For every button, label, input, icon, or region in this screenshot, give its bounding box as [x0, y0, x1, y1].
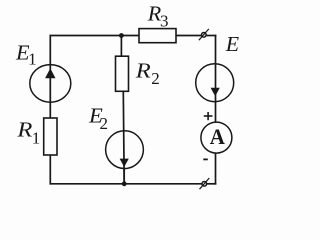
wire right branch upper	[215, 35, 217, 122]
source E arrow	[211, 88, 220, 96]
wire middle branch between R2 and E2	[122, 91, 125, 184]
svg-text:R: R	[16, 118, 32, 141]
wire left branch upper	[49, 35, 51, 118]
wire middle branch upper stub	[120, 36, 122, 57]
svg-text:R: R	[135, 59, 151, 82]
source E1 circle	[30, 65, 71, 103]
wire right branch lower	[215, 153, 217, 184]
wire left branch lower	[49, 155, 51, 185]
svg-text:3: 3	[160, 12, 169, 31]
svg-text:1: 1	[32, 128, 41, 147]
source E2 arrow	[120, 159, 129, 167]
ammeter minus sign	[203, 158, 208, 160]
node junction bottom (middle branch to bottom wire)	[122, 181, 127, 186]
ammeter A circle	[201, 122, 232, 153]
svg-text:E: E	[225, 33, 239, 57]
wire top terminal to right corner	[206, 35, 216, 37]
resistor R2 box	[116, 56, 129, 91]
svg-text:2: 2	[100, 114, 109, 133]
wire top horizontal between R3 and top terminal	[176, 35, 202, 37]
resistor R3 box	[139, 29, 176, 43]
svg-text:A: A	[210, 124, 225, 149]
svg-text:1: 1	[28, 50, 36, 69]
ammeter plus sign	[204, 112, 213, 120]
wire bottom horizontal left segment	[50, 183, 203, 185]
resistor R1 box	[44, 118, 57, 155]
wire bottom terminal to right corner	[206, 183, 216, 185]
svg-text:R: R	[147, 2, 161, 25]
source E circle	[196, 64, 234, 102]
svg-text:2: 2	[151, 69, 160, 88]
node junction top (middle branch to top wire)	[119, 33, 124, 38]
wire middle branch lower stub	[123, 168, 125, 184]
source E1 arrow	[45, 68, 55, 78]
source E2 circle	[106, 131, 144, 169]
wire top horizontal left segment	[50, 35, 140, 37]
terminal top-right	[199, 29, 209, 40]
terminal bottom-right	[200, 178, 210, 189]
